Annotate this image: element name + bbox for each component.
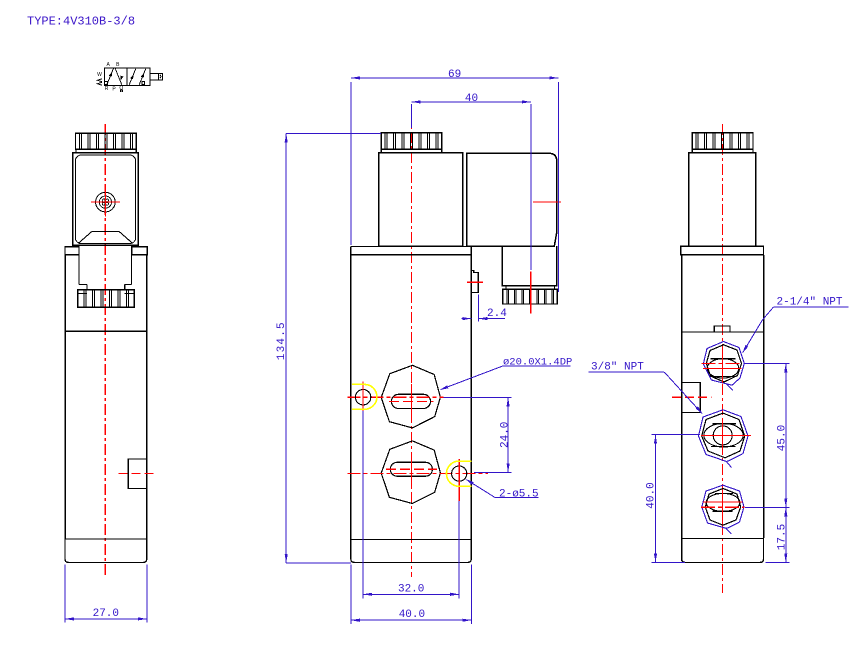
middle view port boss 1 (octagon)	[381, 365, 440, 428]
right view port 2 highlight outline	[699, 410, 749, 468]
right view small top marker	[714, 326, 730, 332]
svg-text:R: R	[105, 86, 109, 92]
svg-text:O: O	[119, 85, 123, 91]
right view port 2 centerline	[701, 419, 751, 452]
left view screw crosshair	[91, 188, 120, 217]
svg-text:2-ø5.5: 2-ø5.5	[499, 488, 539, 500]
right view port 1 highlight outline	[703, 342, 744, 391]
right view body divider	[682, 331, 764, 333]
middle view label port thread	[439, 356, 572, 390]
right view centerline	[722, 124, 724, 593]
middle view mounting hole left highlight	[352, 384, 377, 409]
right view port 3 centerlines	[701, 491, 745, 524]
valve symbol label O	[119, 85, 123, 91]
right view dimension 45.0	[745, 363, 790, 507]
middle view label mounting holes	[465, 479, 539, 501]
middle view mounting hole right highlight	[446, 461, 471, 486]
svg-text:40: 40	[465, 93, 478, 105]
svg-text:3/8″ NPT: 3/8″ NPT	[591, 361, 644, 373]
middle view port slot 1	[391, 394, 430, 408]
left view connector screw	[96, 192, 116, 212]
valve symbol corner square right	[142, 82, 145, 85]
valve symbol actuator box	[150, 74, 163, 80]
middle view dimension 32.0	[363, 411, 459, 598]
svg-text:40.0: 40.0	[399, 609, 425, 621]
middle view mounting hole right crosshair	[458, 459, 460, 501]
middle view connector screw centerline	[533, 201, 561, 203]
middle view side tab with step	[471, 271, 478, 293]
middle view connector block	[467, 153, 557, 246]
svg-text:17.5: 17.5	[777, 524, 789, 550]
valve symbol exhaust diamond	[121, 90, 123, 92]
valve symbol pilot chevrons W side	[98, 79, 103, 86]
middle view centerline	[411, 112, 413, 577]
valve symbol flow arrow 3	[129, 68, 136, 84]
svg-text:2.4: 2.4	[487, 308, 507, 320]
middle view base	[351, 540, 472, 563]
valve symbol flow arrow 4	[139, 68, 146, 84]
middle view port 2 horizontal centerline	[347, 459, 488, 488]
middle view port slot 2	[390, 462, 432, 476]
right view flange	[681, 246, 764, 254]
left view solenoid lower body	[79, 245, 131, 289]
valve symbol label W	[97, 72, 102, 78]
right view port 3 boss	[705, 489, 740, 526]
svg-text:TYPE:4V310B-3/8: TYPE:4V310B-3/8	[27, 15, 135, 29]
valve symbol label A	[107, 62, 111, 68]
left view flange ear right	[132, 247, 147, 255]
middle view flange	[351, 246, 472, 254]
middle view port boss 2 (octagon)	[381, 441, 440, 504]
right view port 1 thread circle	[707, 359, 739, 378]
right view port 3 thread circle	[706, 493, 740, 511]
left view body	[65, 255, 147, 539]
svg-text:45.0: 45.0	[777, 425, 789, 451]
right view base	[682, 538, 764, 563]
valve symbol flow arrow 2	[115, 68, 123, 84]
middle view mounting hole right	[452, 466, 467, 481]
right view dimension 17.5	[766, 507, 790, 562]
valve symbol label R	[105, 86, 109, 92]
left view connector trapezoid	[79, 232, 132, 243]
svg-text:P: P	[112, 86, 116, 92]
valve symbol label P	[112, 86, 116, 92]
left view centerline	[104, 124, 106, 578]
middle view port slot 1 centerline	[389, 400, 434, 402]
right view port 1 boss	[706, 345, 741, 382]
left view connector block	[73, 153, 138, 246]
left view base	[65, 539, 147, 562]
right view label 3/8 NPT	[589, 361, 703, 414]
middle view dimension 40	[412, 93, 531, 270]
left view lower knurled ring	[78, 290, 135, 308]
left view body divider	[65, 330, 147, 332]
right view dimension 40.0	[646, 435, 701, 563]
valve symbol right box	[127, 68, 150, 86]
right view port 3 highlight outline	[702, 485, 744, 534]
svg-text:2-1/4″ NPT: 2-1/4″ NPT	[777, 296, 843, 308]
svg-text:134.5: 134.5	[276, 321, 288, 360]
middle view dimension 134.5	[276, 134, 381, 563]
left view dimension 27.0	[65, 565, 147, 623]
svg-text:40.0: 40.0	[646, 482, 658, 508]
right view port 2 inner	[704, 423, 743, 447]
svg-text:24.0: 24.0	[500, 422, 512, 448]
middle view dimension 69	[351, 69, 559, 292]
valve symbol label B	[116, 62, 120, 68]
middle view gland centerline	[530, 272, 532, 314]
right view solenoid body	[689, 153, 756, 247]
middle view knurled nut	[381, 133, 442, 153]
middle view cable gland knurled nut	[503, 289, 557, 304]
left view tab centerline	[118, 472, 155, 474]
middle view body	[351, 255, 472, 540]
svg-text:ø20.0X1.4DP: ø20.0X1.4DP	[503, 356, 572, 368]
left view knurled nut	[75, 133, 136, 153]
svg-text:69: 69	[448, 69, 461, 81]
valve symbol corner square left	[104, 82, 107, 85]
svg-text:W: W	[97, 72, 102, 78]
right view tab centerline	[672, 396, 711, 398]
middle view mounting hole left	[355, 390, 370, 405]
middle view connector lower part	[502, 246, 557, 289]
right view body	[682, 255, 764, 538]
right view label 2-1/4 NPT	[742, 296, 849, 353]
svg-text:B: B	[116, 62, 120, 68]
valve symbol flow arrow 1	[107, 68, 114, 84]
right view port 1 centerlines	[701, 349, 742, 383]
middle view port slot 2 centerline	[386, 468, 437, 470]
svg-text:A: A	[107, 62, 111, 68]
middle view dimension 24.0	[443, 397, 511, 472]
left view flange ear left	[65, 247, 79, 255]
right view knurled nut	[692, 133, 753, 153]
svg-text:32.0: 32.0	[398, 584, 424, 596]
left view side tab	[128, 459, 146, 488]
svg-text:27.0: 27.0	[93, 608, 119, 620]
right view side tab	[682, 383, 701, 413]
middle view mounting hole left crosshair	[362, 382, 364, 411]
middle view dimension 2.4	[462, 295, 508, 322]
title text TYPE:4V310B-3/8	[27, 15, 135, 29]
middle view solenoid body	[379, 153, 463, 247]
middle view tab centerline	[467, 281, 483, 283]
valve symbol left box	[104, 68, 127, 86]
middle view port 1 horizontal centerline	[347, 384, 443, 414]
right view port 2 boss	[702, 413, 745, 458]
middle view dimension 40.0	[351, 565, 472, 625]
